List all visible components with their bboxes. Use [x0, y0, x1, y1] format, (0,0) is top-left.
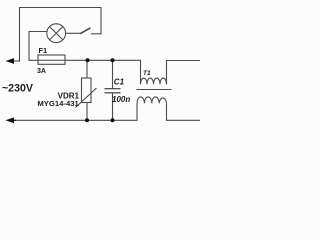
- capacitor C1: [105, 60, 121, 120]
- svg-text:3A: 3A: [37, 68, 46, 75]
- junction node fuse/varistor: [86, 58, 90, 62]
- switch fixed contact: [92, 33, 102, 35]
- mains arrow top: [6, 58, 15, 64]
- lamp La1: [47, 24, 66, 43]
- junction node bottom/varistor: [85, 118, 89, 122]
- svg-text:~230V: ~230V: [2, 82, 33, 94]
- transformer T1 core: [137, 89, 172, 91]
- svg-text:MYG14-431: MYG14-431: [37, 99, 79, 108]
- wire mains live lead: [8, 60, 20, 62]
- junction node bottom/capacitor: [111, 118, 115, 122]
- lamp to switch wire: [66, 32, 81, 34]
- mains arrow bottom: [6, 117, 15, 123]
- fuse F1: [38, 55, 65, 64]
- svg-text:F1: F1: [39, 46, 48, 55]
- wire top rail right segment: [167, 60, 201, 62]
- junction node fuse/capacitor: [111, 58, 115, 62]
- wire mains neutral bottom rail: [12, 119, 137, 121]
- wire top rail: [20, 8, 102, 62]
- wire bottom rail right segment: [167, 119, 201, 121]
- switch S blade: [81, 28, 90, 33]
- transformer T1 secondary winding: [137, 97, 167, 120]
- svg-text:100n: 100n: [112, 95, 130, 104]
- varistor VDR1: [76, 60, 97, 120]
- wire lamp branch left: [29, 32, 47, 61]
- transformer T1 primary winding: [141, 60, 167, 84]
- wire fuse row: [29, 59, 141, 61]
- wire bottom arrow lead: [13, 119, 16, 121]
- svg-text:C1: C1: [114, 77, 125, 86]
- svg-text:T1: T1: [143, 70, 151, 77]
